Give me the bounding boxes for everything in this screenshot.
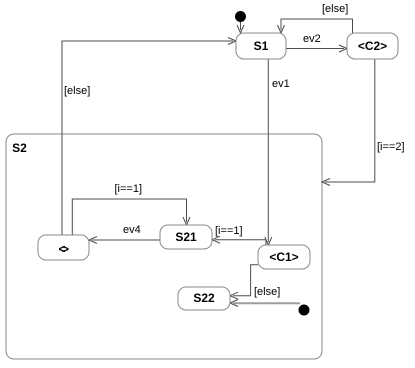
state choice <>: [38, 235, 89, 260]
svg-text:[else]: [else]: [64, 85, 90, 97]
svg-text:[i==1]: [i==1]: [215, 225, 243, 237]
svg-text:[i==1]: [i==1]: [115, 183, 143, 195]
svg-text:<C1>: <C1>: [269, 250, 298, 264]
svg-text:S21: S21: [175, 230, 197, 244]
state S2 (composite): [6, 134, 322, 359]
transition: S1 to C2, event ev2: [286, 45, 347, 52]
svg-text:S1: S1: [254, 39, 269, 53]
transition: S21 to choice <>, event ev4: [89, 237, 160, 244]
state S1: [236, 33, 286, 59]
state C1 (choice): [258, 245, 310, 269]
transition: C1 to S22, guard [else]: [230, 265, 258, 299]
svg-text:[else]: [else]: [322, 3, 348, 15]
svg-text:<C2>: <C2>: [358, 39, 387, 53]
transition: C2 to S1 loop, guard [else]: [278, 19, 353, 33]
transition: C1 to S21, guard [i==1]: [212, 236, 266, 245]
svg-text:S22: S22: [193, 291, 215, 305]
state S21: [160, 225, 212, 249]
svg-text:[i==2]: [i==2]: [377, 141, 405, 153]
transition: initial (top) to S1: [237, 22, 244, 33]
initial pseudostate (top): [235, 11, 246, 22]
state S22: [178, 287, 230, 310]
transition: choice <> to S1, guard [else]: [62, 38, 236, 236]
svg-text:ev1: ev1: [272, 78, 290, 90]
svg-text:S2: S2: [12, 141, 27, 155]
svg-text:[else]: [else]: [254, 286, 280, 298]
svg-text:ev4: ev4: [123, 224, 141, 236]
transition: S1 to C1, event ev1: [265, 59, 272, 245]
initial pseudostate (lower, in S2): [299, 305, 310, 316]
svg-text:ev2: ev2: [303, 33, 321, 45]
transition: initial (lower) to S22: [233, 302, 300, 304]
state C2 (choice): [347, 33, 398, 59]
transition: C2 to S2, guard [i==2]: [322, 59, 375, 186]
transition: choice <> to S21, guard [i==1]: [72, 199, 190, 235]
